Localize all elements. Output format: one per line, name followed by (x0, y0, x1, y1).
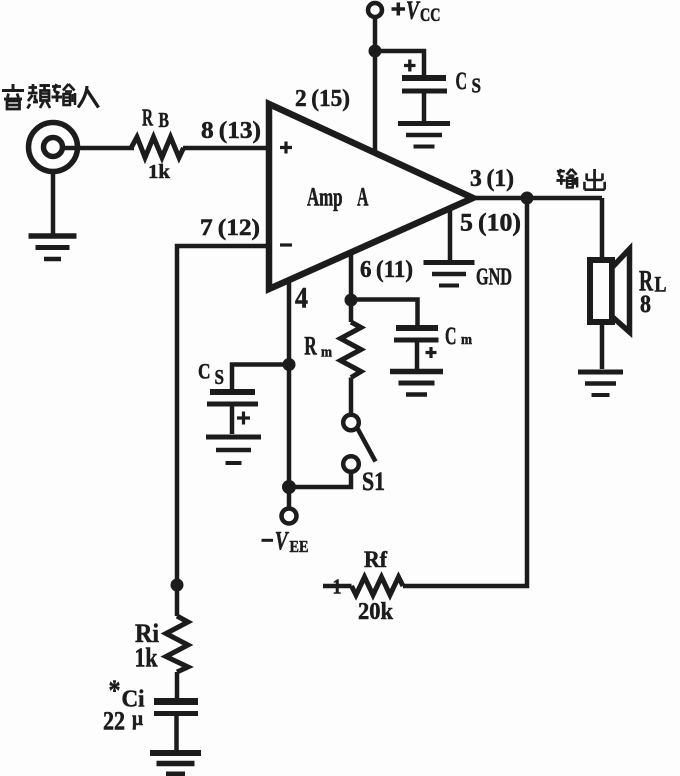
svg-text:V: V (275, 527, 290, 556)
svg-text:*: * (109, 674, 121, 707)
svg-text:1: 1 (333, 575, 342, 599)
svg-text:B: B (159, 108, 170, 132)
svg-text:μ: μ (132, 706, 143, 730)
svg-text:20k: 20k (358, 599, 394, 625)
svg-text:R: R (304, 331, 317, 361)
svg-text:2 (15): 2 (15) (295, 86, 350, 112)
svg-text:R: R (142, 105, 153, 132)
svg-text:7 (12): 7 (12) (200, 215, 260, 241)
svg-text:C: C (456, 68, 468, 95)
svg-text:S: S (472, 74, 482, 98)
svg-text:A: A (357, 183, 369, 212)
svg-text:3 (1): 3 (1) (470, 166, 514, 192)
svg-text:1k: 1k (135, 643, 158, 673)
svg-text:1k: 1k (148, 161, 171, 183)
svg-text:m: m (461, 332, 472, 348)
svg-text:L: L (655, 272, 667, 297)
svg-text:22: 22 (103, 707, 125, 736)
svg-text:C: C (445, 323, 457, 350)
svg-text:CC: CC (420, 5, 441, 26)
svg-text:4: 4 (295, 282, 308, 315)
svg-text:6 (11): 6 (11) (360, 257, 413, 283)
svg-text:5 (10): 5 (10) (460, 210, 521, 237)
svg-text:Rf: Rf (364, 547, 388, 573)
svg-text:m: m (321, 345, 332, 361)
svg-text:V: V (406, 0, 421, 25)
svg-text:8 (13): 8 (13) (201, 118, 261, 144)
svg-text:8: 8 (640, 289, 651, 318)
svg-text:GND: GND (476, 265, 512, 291)
svg-text:S1: S1 (362, 467, 385, 496)
svg-text:S: S (215, 365, 225, 389)
svg-text:EE: EE (290, 537, 309, 556)
svg-text:Amp: Amp (307, 183, 343, 212)
svg-text:C: C (198, 359, 211, 384)
